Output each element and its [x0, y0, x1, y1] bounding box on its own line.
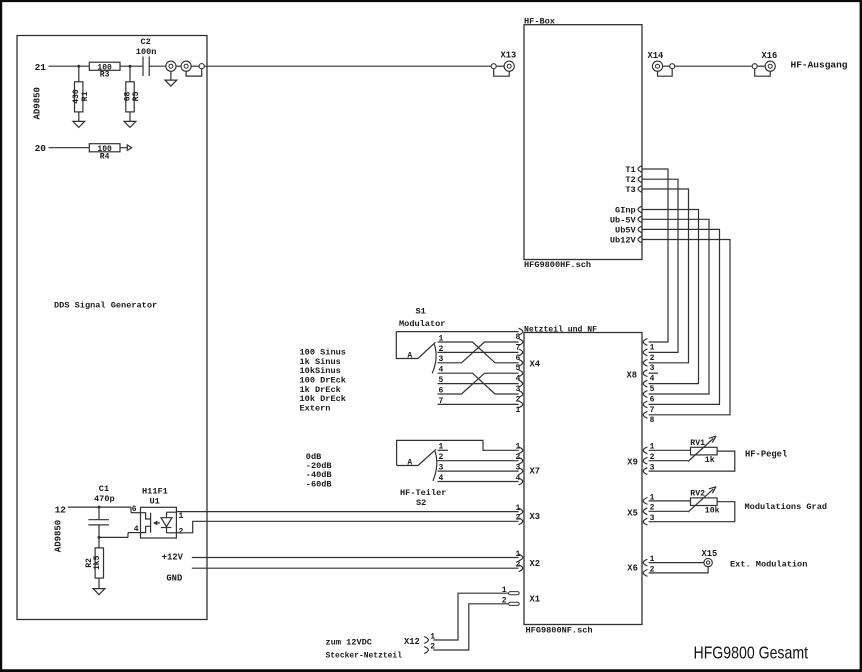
svg-text:1: 1 [650, 343, 655, 352]
svg-text:5: 5 [515, 364, 520, 373]
svg-text:X14: X14 [648, 51, 665, 61]
svg-text:X8: X8 [627, 370, 638, 380]
svg-text:RV2: RV2 [690, 489, 705, 498]
svg-text:21: 21 [35, 62, 47, 73]
svg-text:20: 20 [35, 143, 47, 154]
svg-text:Ub5V: Ub5V [615, 225, 636, 235]
svg-text:8: 8 [650, 416, 655, 425]
svg-text:2: 2 [439, 453, 444, 462]
svg-text:A: A [407, 352, 412, 361]
svg-text:R5: R5 [132, 91, 141, 101]
svg-text:AD9850: AD9850 [33, 87, 43, 119]
svg-text:4: 4 [650, 375, 655, 384]
svg-text:Ub-5V: Ub-5V [610, 215, 637, 225]
svg-text:X4: X4 [530, 360, 541, 370]
svg-text:8: 8 [515, 333, 520, 342]
svg-text:X6: X6 [627, 563, 638, 573]
svg-text:X15: X15 [702, 549, 718, 559]
svg-text:1: 1 [515, 504, 520, 513]
svg-text:5: 5 [650, 385, 655, 394]
svg-text:Ext. Modulation: Ext. Modulation [730, 560, 807, 570]
svg-text:3: 3 [515, 385, 520, 394]
svg-text:X7: X7 [530, 466, 541, 476]
svg-text:AD9850: AD9850 [53, 520, 63, 552]
svg-text:X9: X9 [627, 457, 638, 467]
svg-text:R3: R3 [100, 71, 110, 80]
svg-text:U1: U1 [150, 496, 160, 506]
svg-text:1: 1 [179, 512, 184, 521]
svg-text:4: 4 [134, 525, 139, 534]
svg-text:RV1: RV1 [690, 439, 705, 448]
svg-text:R1: R1 [81, 91, 90, 101]
svg-text:6: 6 [515, 354, 520, 363]
svg-text:Ub12V: Ub12V [610, 236, 637, 246]
svg-text:zum 12VDC: zum 12VDC [326, 637, 372, 647]
svg-text:1: 1 [515, 550, 520, 559]
svg-text:X3: X3 [530, 512, 541, 522]
svg-text:430: 430 [72, 89, 81, 104]
svg-text:+12V: +12V [162, 553, 184, 563]
svg-text:GInp: GInp [615, 206, 636, 216]
svg-text:DDS Signal Generator: DDS Signal Generator [54, 300, 157, 310]
svg-text:HF-Pegel: HF-Pegel [745, 449, 787, 459]
svg-text:470p: 470p [94, 494, 115, 504]
svg-text:-60dB: -60dB [306, 479, 332, 489]
svg-text:T2: T2 [625, 175, 635, 185]
svg-text:2: 2 [515, 561, 520, 570]
svg-text:3: 3 [650, 364, 655, 373]
svg-text:X5: X5 [627, 508, 638, 518]
svg-text:1: 1 [439, 443, 444, 452]
svg-text:X16: X16 [762, 51, 778, 61]
svg-text:12: 12 [55, 505, 67, 516]
svg-text:C2: C2 [141, 37, 151, 47]
svg-text:6: 6 [132, 505, 137, 514]
svg-text:T3: T3 [625, 185, 635, 195]
svg-text:2: 2 [430, 642, 435, 651]
svg-text:HF-Teiler: HF-Teiler [400, 488, 446, 498]
svg-text:R4: R4 [100, 152, 110, 161]
svg-text:2: 2 [515, 395, 520, 404]
svg-text:3: 3 [439, 464, 444, 473]
svg-text:1: 1 [515, 406, 520, 415]
svg-text:100n: 100n [136, 47, 157, 57]
svg-text:6: 6 [650, 395, 655, 404]
svg-text:X2: X2 [530, 559, 541, 569]
svg-text:Modulator: Modulator [399, 319, 445, 329]
svg-text:HF-Ausgang: HF-Ausgang [791, 60, 848, 70]
svg-text:1k5: 1k5 [93, 555, 102, 570]
svg-text:X12: X12 [404, 637, 420, 647]
svg-text:2: 2 [179, 528, 184, 537]
svg-text:T1: T1 [625, 165, 635, 175]
svg-text:GND: GND [166, 574, 182, 584]
svg-text:HFG9800 Gesamt: HFG9800 Gesamt [694, 643, 809, 663]
svg-text:X13: X13 [501, 51, 517, 61]
svg-text:7: 7 [515, 343, 520, 352]
svg-text:X1: X1 [530, 594, 541, 604]
svg-text:HFG9800NF.sch: HFG9800NF.sch [526, 626, 593, 636]
svg-text:S1: S1 [416, 307, 426, 317]
svg-text:S2: S2 [416, 498, 426, 508]
svg-text:C1: C1 [99, 484, 109, 494]
svg-text:1k: 1k [705, 455, 715, 465]
svg-text:Stecker-Netzteil: Stecker-Netzteil [326, 650, 403, 660]
svg-text:2: 2 [515, 514, 520, 523]
svg-text:7: 7 [650, 406, 655, 415]
svg-text:4: 4 [439, 474, 444, 483]
svg-text:1: 1 [430, 632, 435, 641]
svg-text:Netzteil und NF: Netzteil und NF [524, 324, 597, 334]
svg-text:10k: 10k [705, 506, 720, 516]
svg-text:A: A [407, 459, 412, 468]
svg-text:HFG9800HF.sch: HFG9800HF.sch [524, 260, 591, 270]
svg-text:2: 2 [650, 354, 655, 363]
svg-text:HF-Box: HF-Box [524, 17, 555, 27]
svg-text:4: 4 [515, 375, 520, 384]
svg-text:H11F1: H11F1 [142, 486, 168, 496]
svg-text:Modulations Grad: Modulations Grad [745, 502, 828, 512]
svg-text:Extern: Extern [300, 403, 331, 413]
